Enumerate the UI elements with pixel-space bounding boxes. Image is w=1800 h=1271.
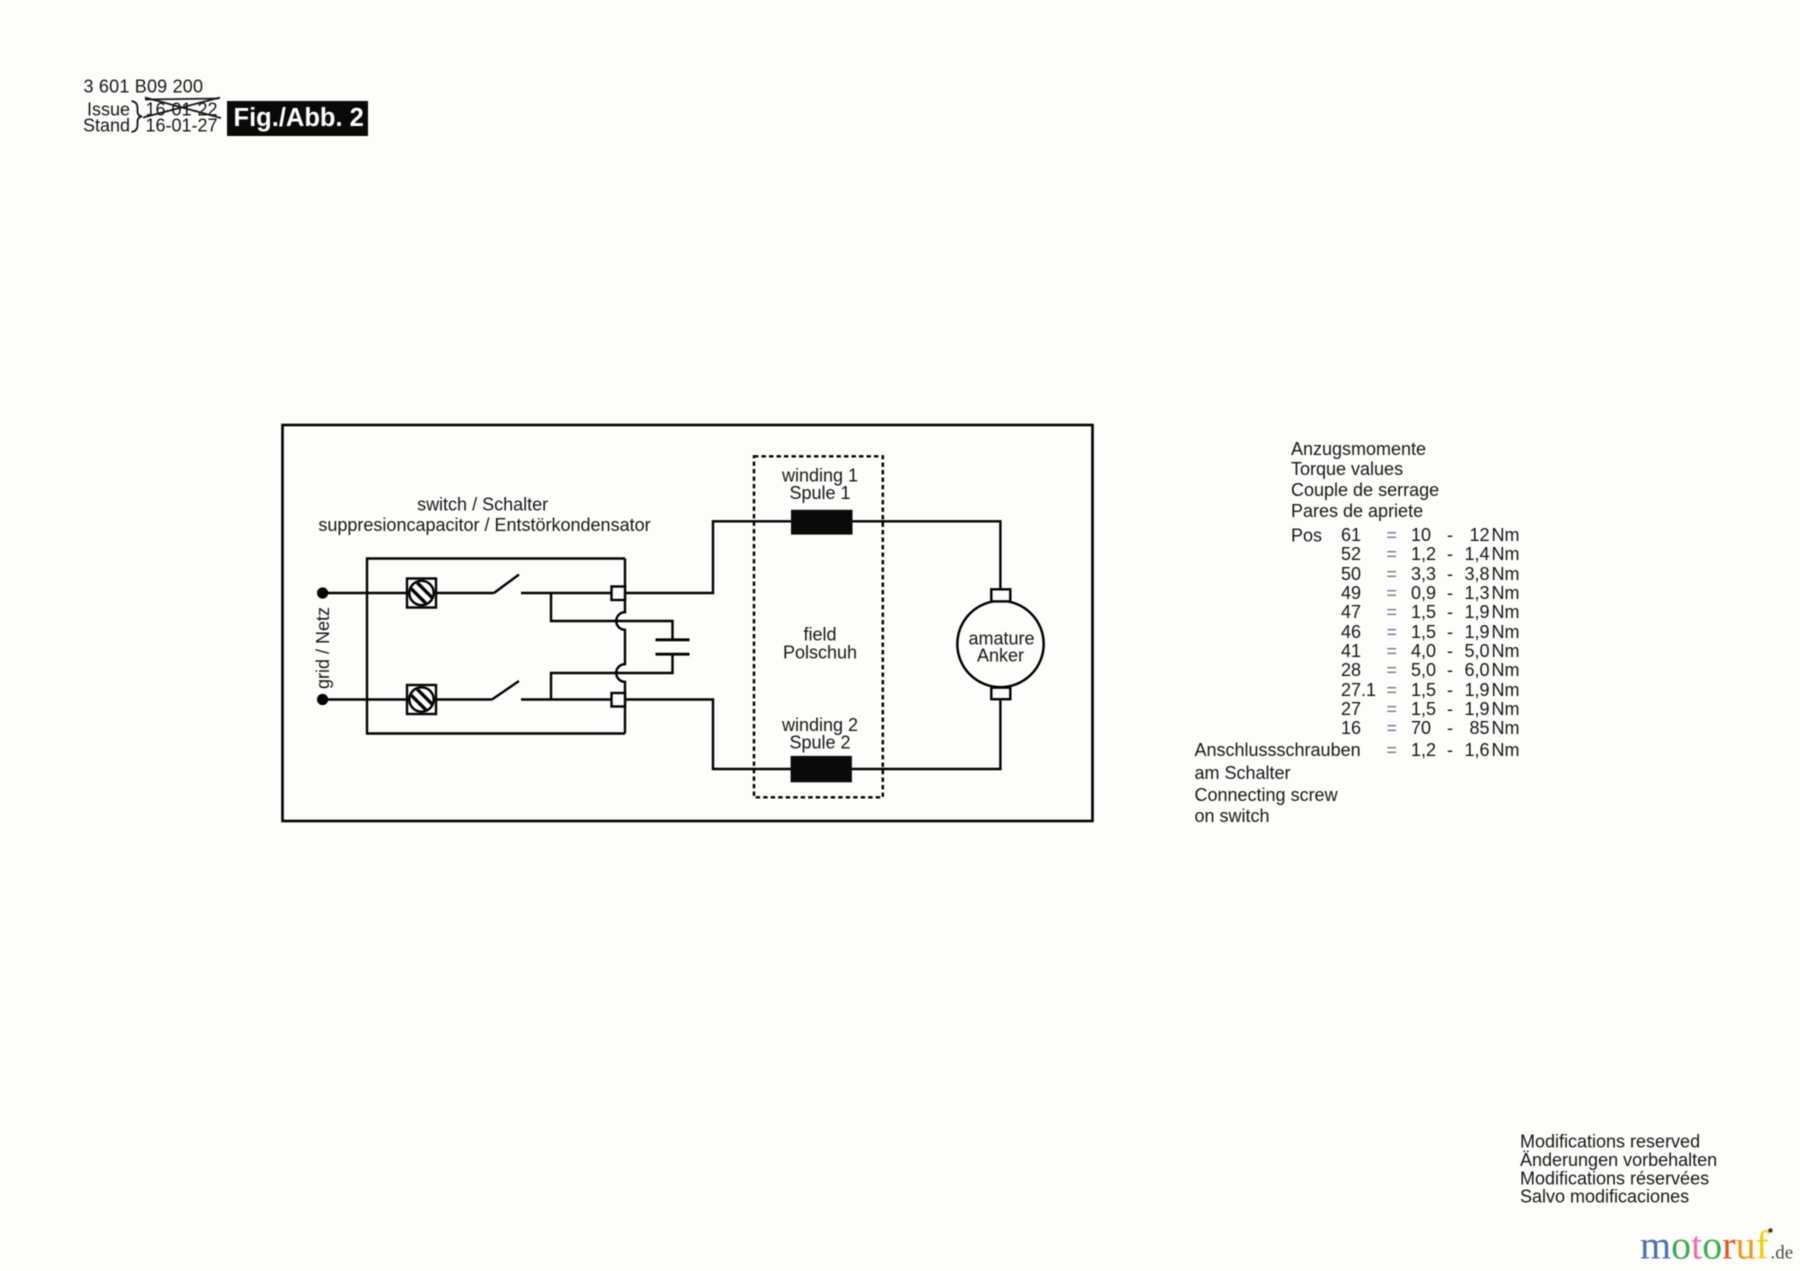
svg-text:field: field (803, 624, 836, 644)
svg-text:Änderungen vorbehalten: Änderungen vorbehalten (1520, 1150, 1717, 1170)
svg-text:grid / Netz: grid / Netz (313, 607, 333, 689)
svg-text:Stand: Stand (83, 116, 130, 136)
svg-text:3 601 B09 200: 3 601 B09 200 (84, 77, 204, 97)
svg-text:Couple de serrage: Couple de serrage (1291, 480, 1439, 500)
svg-text:Pos: Pos (1291, 525, 1322, 545)
svg-text:Modifications reserved: Modifications reserved (1520, 1132, 1700, 1152)
svg-text:Pares de apriete: Pares de apriete (1291, 501, 1423, 521)
svg-text:Polschuh: Polschuh (783, 643, 857, 663)
svg-text:Modifications réservées: Modifications réservées (1520, 1168, 1709, 1188)
svg-text:suppresioncapacitor / Entstörk: suppresioncapacitor / Entstörkondensator (318, 515, 650, 535)
svg-text:switch / Schalter: switch / Schalter (417, 494, 548, 514)
svg-text:Spule 2: Spule 2 (789, 732, 850, 752)
svg-text:Spule 1: Spule 1 (789, 483, 850, 503)
svg-text:Torque values: Torque values (1291, 459, 1403, 479)
svg-text:.de: .de (1771, 1243, 1794, 1264)
svg-text:Salvo modificaciones: Salvo modificaciones (1520, 1186, 1689, 1206)
svg-text:Anker: Anker (977, 645, 1024, 665)
svg-text:motoruf: motoruf (1640, 1223, 1770, 1268)
svg-text:16-01-27: 16-01-27 (146, 116, 218, 136)
svg-text:Fig./Abb. 2: Fig./Abb. 2 (234, 104, 364, 132)
svg-text:Anzugsmomente: Anzugsmomente (1291, 439, 1426, 459)
